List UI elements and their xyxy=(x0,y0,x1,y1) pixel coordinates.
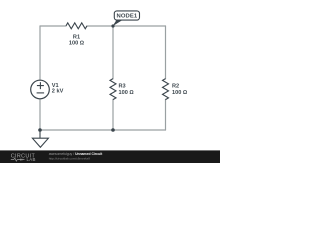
svg-text:R3: R3 xyxy=(119,84,126,90)
svg-text:100 Ω: 100 Ω xyxy=(119,90,135,96)
svg-text:100 Ω: 100 Ω xyxy=(69,40,85,46)
svg-text:LAB: LAB xyxy=(27,157,36,162)
svg-text:100 Ω: 100 Ω xyxy=(172,90,188,96)
svg-text:NODE1: NODE1 xyxy=(117,14,138,20)
svg-text:2 kV: 2 kV xyxy=(52,89,64,95)
svg-text:http://circuitlab.com/c6mzskz8: http://circuitlab.com/c6mzskz8 xyxy=(49,156,91,160)
svg-text:R2: R2 xyxy=(172,84,179,90)
